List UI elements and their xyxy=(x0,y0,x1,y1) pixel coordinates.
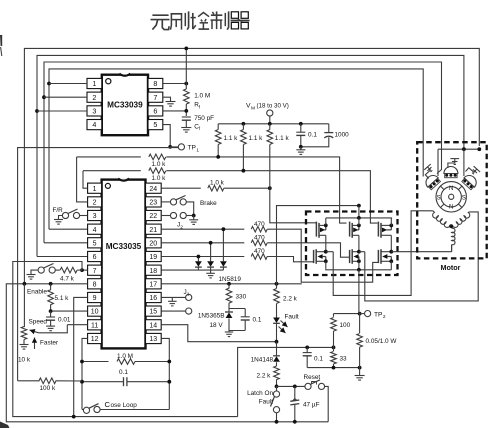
svg-text:4: 4 xyxy=(93,227,97,234)
zener 1N5365B xyxy=(225,309,233,331)
svg-text:7: 7 xyxy=(153,93,157,102)
resistor 330 xyxy=(226,284,246,309)
svg-text:1.1 k: 1.1 k xyxy=(275,135,290,142)
wire REF top bus (pin8 ref to hall power) xyxy=(24,48,479,284)
svg-text:0.1: 0.1 xyxy=(253,317,262,324)
label VM xyxy=(246,103,289,112)
svg-text:1.0 k: 1.0 k xyxy=(210,179,225,186)
switch close loop xyxy=(82,404,169,414)
U1 pin 6 xyxy=(148,106,163,116)
wire line B to F3 gate xyxy=(166,169,377,223)
node pin1 tap xyxy=(47,82,51,86)
svg-text:100 k: 100 k xyxy=(40,385,56,392)
wire bridge VM bus xyxy=(326,216,392,220)
switch reset xyxy=(305,380,328,422)
U1 pin 4 xyxy=(87,120,102,130)
wire hall center frame left xyxy=(437,149,439,176)
switch brake pin23 xyxy=(161,196,194,216)
svg-text:N: N xyxy=(449,205,453,211)
U2 pin 10 xyxy=(88,306,102,316)
label 18V xyxy=(210,322,224,329)
motor dashed box xyxy=(417,142,487,258)
resistor 1.1k pullup C xyxy=(267,124,289,188)
capacitor C1 750pF xyxy=(182,115,214,131)
hall sensor bracket left xyxy=(422,164,437,178)
ground J2 xyxy=(189,220,198,225)
wire hall power line xyxy=(438,147,481,151)
svg-text:3: 3 xyxy=(92,107,96,116)
svg-text:4.7 k: 4.7 k xyxy=(60,275,75,282)
svg-text:330: 330 xyxy=(236,294,247,301)
label Latch On Fault xyxy=(247,390,273,406)
motor winding A xyxy=(433,213,450,228)
svg-text:1.0 k: 1.0 k xyxy=(152,161,167,168)
resistor 1.0k BT xyxy=(149,168,166,182)
svg-text:2: 2 xyxy=(383,314,386,320)
U2 pin 15 xyxy=(146,306,162,316)
svg-text:14: 14 xyxy=(149,322,157,329)
wire U1 pin2 to hall B xyxy=(44,96,87,98)
IC U2 MC33035 body xyxy=(102,178,146,348)
svg-text:Brake: Brake xyxy=(200,200,217,207)
svg-text:0.1: 0.1 xyxy=(314,356,323,363)
motor winding C xyxy=(452,228,455,252)
svg-text:17: 17 xyxy=(149,281,157,288)
wire R1 top to REF bus xyxy=(184,47,188,90)
svg-text:0.01: 0.01 xyxy=(58,317,71,324)
wire pin14 filter return xyxy=(238,347,308,416)
U2 pin 19 xyxy=(146,251,162,261)
wire TP1 line xyxy=(18,148,179,381)
wire U1 pin8 to R1 node xyxy=(163,82,188,86)
wire U2 pin9 sense loop xyxy=(72,297,88,418)
svg-text:2: 2 xyxy=(92,93,96,102)
test point TP2 xyxy=(360,311,386,321)
svg-text:1: 1 xyxy=(187,292,190,298)
wire U2 pin18 xyxy=(161,269,223,271)
wire hall A top bus xyxy=(49,69,423,170)
U1 pin 8 xyxy=(148,78,163,88)
resistor 33 xyxy=(331,347,347,367)
label 1N4148 xyxy=(251,357,274,364)
U1 pin 3 xyxy=(87,106,102,116)
resistor 2.2k fault xyxy=(274,284,298,318)
svg-text:13: 13 xyxy=(149,336,157,343)
node fault junction xyxy=(275,340,279,344)
wire sense bottom xyxy=(307,366,361,370)
wire TP2 left xyxy=(334,312,362,316)
ground C1 xyxy=(181,128,191,133)
op-amp U1 MC33039 body xyxy=(102,74,148,136)
resistor 0.05 sense xyxy=(357,314,398,368)
wire hall center frame right xyxy=(463,149,465,176)
node latch junction xyxy=(275,385,279,389)
U2 pin 21 xyxy=(146,224,162,234)
svg-text:10: 10 xyxy=(91,309,99,316)
test point TP1 xyxy=(178,144,199,154)
motor rotor xyxy=(436,182,466,212)
wire line C to F1 gate xyxy=(270,188,317,223)
svg-text:5.1 k: 5.1 k xyxy=(55,295,70,302)
svg-text:16: 16 xyxy=(149,295,157,302)
hall sensor center xyxy=(444,167,458,178)
svg-text:Speed: Speed xyxy=(29,319,48,326)
svg-text:1.1 k: 1.1 k xyxy=(224,135,239,142)
wire hall B top bus xyxy=(44,62,442,163)
wire U2 pin14 fault xyxy=(161,325,276,342)
svg-text:22: 22 xyxy=(149,213,157,220)
capacitor 47uF xyxy=(290,386,299,423)
svg-text:F/R: F/R xyxy=(53,207,64,214)
svg-text:18: 18 xyxy=(149,268,157,275)
resistor 470 AB xyxy=(251,221,267,232)
title text 无刷控制器 xyxy=(151,11,250,29)
label J1 xyxy=(184,289,190,298)
U2 pin 22 xyxy=(146,210,162,220)
label Motor xyxy=(441,263,461,272)
ground 1N5819 bus xyxy=(206,270,215,278)
U2 pin 24 xyxy=(146,183,162,193)
U2 pin 14 xyxy=(146,320,162,330)
wire U2 pin16 xyxy=(161,297,185,301)
U2 pin 18 xyxy=(146,265,162,275)
svg-text:ose Loop: ose Loop xyxy=(111,402,138,409)
U1 pin 2 xyxy=(87,92,102,102)
svg-text:24: 24 xyxy=(149,186,157,193)
wire U2 pin11 xyxy=(67,324,87,326)
node pin2 tap xyxy=(42,95,46,99)
svg-text:2.2 k: 2.2 k xyxy=(257,373,272,380)
resistor 5.1k xyxy=(48,284,69,311)
svg-text:Reset: Reset xyxy=(304,374,321,381)
wire U1 pin7 to ground xyxy=(163,97,171,101)
svg-text:6: 6 xyxy=(93,254,97,261)
svg-text:470: 470 xyxy=(254,235,265,242)
svg-text:3: 3 xyxy=(93,213,97,220)
node R1/C1 junction xyxy=(184,104,188,116)
diode D2 1N5819 xyxy=(207,241,214,270)
ground J1 xyxy=(168,301,177,306)
svg-text:Latch On: Latch On xyxy=(247,390,273,397)
wire pin7 riser loop xyxy=(13,262,238,417)
transistor Q2 top P-FET phase B xyxy=(350,218,361,252)
wire U2 pin17 Vc xyxy=(161,282,302,286)
svg-text:21: 21 xyxy=(149,227,157,234)
svg-text:0.05/1.0 W: 0.05/1.0 W xyxy=(366,338,398,345)
label 10 k xyxy=(18,357,31,364)
svg-text:2.2 k: 2.2 k xyxy=(283,296,298,303)
label Faster arrow xyxy=(32,338,59,350)
resistor 1.1k pullup B xyxy=(241,124,264,171)
U2 pin 5 xyxy=(88,238,102,248)
switch J2 pin22 xyxy=(161,212,195,219)
svg-text:15: 15 xyxy=(149,309,157,316)
wire winding A stub xyxy=(433,211,435,213)
svg-text:0.1: 0.1 xyxy=(308,132,317,139)
svg-text:19: 19 xyxy=(149,254,157,261)
wire U2 pin15 xyxy=(161,310,185,312)
wire zener bottom join xyxy=(229,330,245,332)
wire VM rail xyxy=(218,122,329,126)
wire reset line xyxy=(277,385,305,389)
wire U2 pin20 BB xyxy=(161,242,244,244)
svg-text:MC33035: MC33035 xyxy=(106,242,142,251)
svg-text:1N5365B: 1N5365B xyxy=(198,313,225,320)
svg-text:TP: TP xyxy=(374,311,383,318)
wire U2 pin12 drop xyxy=(82,338,88,409)
wire U2 pin2 to line A xyxy=(77,157,88,202)
wire phase A loop xyxy=(326,211,433,296)
capacitor 0.1 zener xyxy=(241,309,262,331)
svg-text:8: 8 xyxy=(153,79,157,88)
svg-text:20: 20 xyxy=(149,240,157,247)
svg-text:750 pF: 750 pF xyxy=(194,115,214,122)
page artifact top-left xyxy=(0,35,2,56)
svg-text:2: 2 xyxy=(93,200,97,207)
wire U2 pin24 xyxy=(161,187,201,189)
svg-text:MC33039: MC33039 xyxy=(107,100,143,109)
wire zener top join xyxy=(229,308,245,310)
diode D1 1N5819 xyxy=(195,255,202,271)
U2 pin 23 xyxy=(146,197,162,207)
transistor Q4 bottom N-FET phase A xyxy=(314,249,328,269)
node winding center xyxy=(449,224,453,228)
wire hall left drop xyxy=(422,170,424,177)
wire U2 pin7 node xyxy=(80,268,88,272)
U1 pin 7 xyxy=(148,92,163,102)
wire hall A drop to MC33035 pin4 xyxy=(49,84,88,230)
resistor 1.0k AT xyxy=(149,154,166,168)
svg-text:1N4148: 1N4148 xyxy=(251,357,274,364)
ground zener xyxy=(225,331,233,337)
wire U2 pin19 CB xyxy=(161,256,244,258)
wire BB to B2 gate xyxy=(267,243,349,257)
svg-text:1.0 M: 1.0 M xyxy=(117,353,133,360)
svg-text:47 µF: 47 µF xyxy=(303,402,320,409)
wire U2 pin10 xyxy=(49,309,88,313)
transistor Q6 bottom N-FET phase C xyxy=(378,249,393,270)
svg-text:100: 100 xyxy=(340,322,351,329)
ground sense xyxy=(355,368,365,381)
jumper J1 bottom xyxy=(186,308,192,314)
label 1N5365B xyxy=(198,313,225,320)
capacitor 0.1 VM xyxy=(296,124,317,147)
resistor 1.1k pullup A xyxy=(215,124,238,157)
resistor 100 xyxy=(331,314,351,348)
bridge dashed box xyxy=(306,212,398,276)
node ref/pot tap xyxy=(23,282,27,286)
wire U1 pin6 to RC node xyxy=(163,110,187,112)
node CT pullup xyxy=(268,186,272,190)
svg-text:18 V: 18 V xyxy=(210,322,224,329)
svg-text:6: 6 xyxy=(153,107,157,116)
resistor 1.0k CT xyxy=(208,179,270,191)
capacitor 0.1 feedback xyxy=(80,369,171,386)
svg-text:1: 1 xyxy=(196,147,199,153)
label 1N5819 xyxy=(219,276,242,283)
potentiometer 10k speed xyxy=(21,327,27,345)
U1 pin 5 xyxy=(148,120,163,130)
svg-text:(18 to 30 V): (18 to 30 V) xyxy=(257,103,289,110)
svg-text:1N5819: 1N5819 xyxy=(219,276,242,283)
wire U2 pin8 reference line xyxy=(6,284,328,422)
svg-text:7: 7 xyxy=(93,268,97,275)
wire Vc riser to bridge supply xyxy=(277,204,361,284)
wire U1 pin3 to hall C xyxy=(37,110,87,112)
U2 pin 9 xyxy=(88,292,102,302)
diode D3 1N5819 xyxy=(220,227,227,270)
node VM caps ground xyxy=(299,145,303,149)
label Fault xyxy=(285,314,299,321)
label J2 xyxy=(177,222,183,231)
wire phase C xyxy=(391,246,451,252)
U2 pin 13 xyxy=(146,333,162,343)
resistor 470 CB xyxy=(251,248,267,259)
wire U2 pin21 AB xyxy=(161,228,244,230)
wire U2 pin1 to line B xyxy=(83,171,88,189)
svg-text:1000: 1000 xyxy=(335,132,350,139)
wire line A (pin2/AT) xyxy=(77,156,141,158)
wire U1 pin5 feedback out xyxy=(163,125,172,149)
svg-text:470: 470 xyxy=(254,221,265,228)
svg-text:1: 1 xyxy=(93,186,97,193)
LED fault xyxy=(273,318,287,342)
page artifact bottom-left corner xyxy=(0,422,10,428)
U2 pin 3 xyxy=(88,210,102,220)
diode 1N4148 xyxy=(273,342,280,366)
ground 0.01 xyxy=(46,326,55,331)
label Close Loop xyxy=(105,400,138,409)
ground VM caps xyxy=(296,147,305,155)
resistor R1 1.0M xyxy=(184,89,211,109)
wire hall C drop to MC33035 pin6 xyxy=(37,111,88,257)
U1 pin 1 xyxy=(87,78,102,88)
wire CB to B1 gate xyxy=(267,257,313,262)
U2 pin 7 xyxy=(88,265,102,275)
wire pot top xyxy=(23,284,25,327)
wire winding B stub xyxy=(468,211,470,214)
svg-text:S: S xyxy=(462,195,466,201)
svg-text:1.0 k: 1.0 k xyxy=(152,175,167,182)
svg-text:Enable: Enable xyxy=(27,289,47,296)
svg-text:Motor: Motor xyxy=(441,263,461,272)
U2 pin 16 xyxy=(146,292,162,302)
label Reset xyxy=(304,374,321,385)
wire sense drop to TP2 xyxy=(358,270,360,314)
jumper J1 top xyxy=(186,294,192,300)
wire hall C top bus xyxy=(37,55,464,149)
switch F/R on U2 pin3 xyxy=(59,209,88,220)
hall sensor bracket right xyxy=(465,164,480,178)
svg-text:4: 4 xyxy=(92,120,96,129)
resistor 4.7k xyxy=(60,267,82,282)
wire U2 pin13 drop xyxy=(161,338,169,409)
svg-text:1.0 M: 1.0 M xyxy=(194,93,210,100)
capacitor 0.01 speed xyxy=(46,311,71,326)
svg-text:5: 5 xyxy=(93,240,97,247)
node ref/5.1k tap xyxy=(49,282,53,286)
ground F/R xyxy=(54,220,63,225)
resistor 470 BB xyxy=(251,235,267,246)
U2 pin 2 xyxy=(88,197,102,207)
svg-text:1: 1 xyxy=(92,79,96,88)
wire AB to B3 gate xyxy=(267,229,378,282)
svg-text:10 k: 10 k xyxy=(18,357,31,364)
svg-text:N: N xyxy=(449,186,453,192)
svg-text:8: 8 xyxy=(93,281,97,288)
U2 pin 17 xyxy=(146,279,162,289)
label 47uF xyxy=(303,402,320,409)
terminal VM xyxy=(267,110,273,124)
transistor Q5 bottom N-FET phase B xyxy=(350,249,361,270)
transistor Q1 top P-FET phase A xyxy=(316,218,327,252)
resistor 2.2k latch xyxy=(257,366,280,386)
switch enable xyxy=(31,264,60,275)
capacitor 1000 VM xyxy=(301,124,349,147)
svg-text:1.1 k: 1.1 k xyxy=(249,135,264,142)
capacitor 0.1 sense xyxy=(303,347,324,367)
wire phase B loop xyxy=(359,212,478,301)
U2 pin 11 xyxy=(88,320,102,330)
hall sensor bracket center xyxy=(448,159,459,168)
resistor 1.0M feedback xyxy=(80,353,171,364)
switch latch on fault xyxy=(271,386,280,423)
hall sensor right xyxy=(461,173,479,191)
U2 pin 1 xyxy=(88,183,102,193)
svg-text:S: S xyxy=(437,195,441,201)
wire line A to F2 gate xyxy=(166,155,346,223)
ground pot xyxy=(20,345,29,350)
svg-text:Fault: Fault xyxy=(259,398,273,405)
wire source bus xyxy=(326,268,392,272)
svg-text:12: 12 xyxy=(91,336,99,343)
transistor Q3 top P-FET phase C xyxy=(378,218,393,252)
U2 pin 8 xyxy=(88,279,102,289)
U2 pin 12 xyxy=(88,333,102,343)
motor winding B xyxy=(452,213,469,228)
svg-text:0.1: 0.1 xyxy=(119,369,128,376)
U2 pin 4 xyxy=(88,224,102,234)
node pin3 tap xyxy=(35,109,39,113)
svg-text:5: 5 xyxy=(153,120,157,129)
svg-text:9: 9 xyxy=(93,295,97,302)
wire hall B drop to MC33035 pin5 xyxy=(44,97,88,243)
svg-text:Faster: Faster xyxy=(40,340,59,347)
label Enable xyxy=(27,289,47,296)
ground U1 pin7 xyxy=(166,102,176,107)
wire TP1 stub xyxy=(170,146,178,148)
label Speed xyxy=(29,319,48,326)
svg-text:33: 33 xyxy=(340,356,348,363)
ground enable switch xyxy=(27,275,36,280)
label F/R xyxy=(53,207,64,214)
U2 pin 6 xyxy=(88,251,102,261)
svg-text:23: 23 xyxy=(149,200,157,207)
svg-text:M: M xyxy=(251,105,255,111)
U2 pin 20 xyxy=(146,238,162,248)
wire filter mid line xyxy=(305,346,335,350)
wire line B (pin1/BT) xyxy=(83,170,141,172)
resistor 100k xyxy=(18,378,82,392)
pot wiper arrow xyxy=(30,325,68,335)
svg-text:Fault: Fault xyxy=(285,314,299,321)
wire U1 pin1 to hall A xyxy=(49,83,87,85)
wire hall mid drop xyxy=(437,163,442,174)
svg-text:11: 11 xyxy=(91,322,98,329)
label Brake xyxy=(200,200,217,207)
hall sensor left xyxy=(423,173,441,191)
svg-text:TP: TP xyxy=(188,145,197,152)
